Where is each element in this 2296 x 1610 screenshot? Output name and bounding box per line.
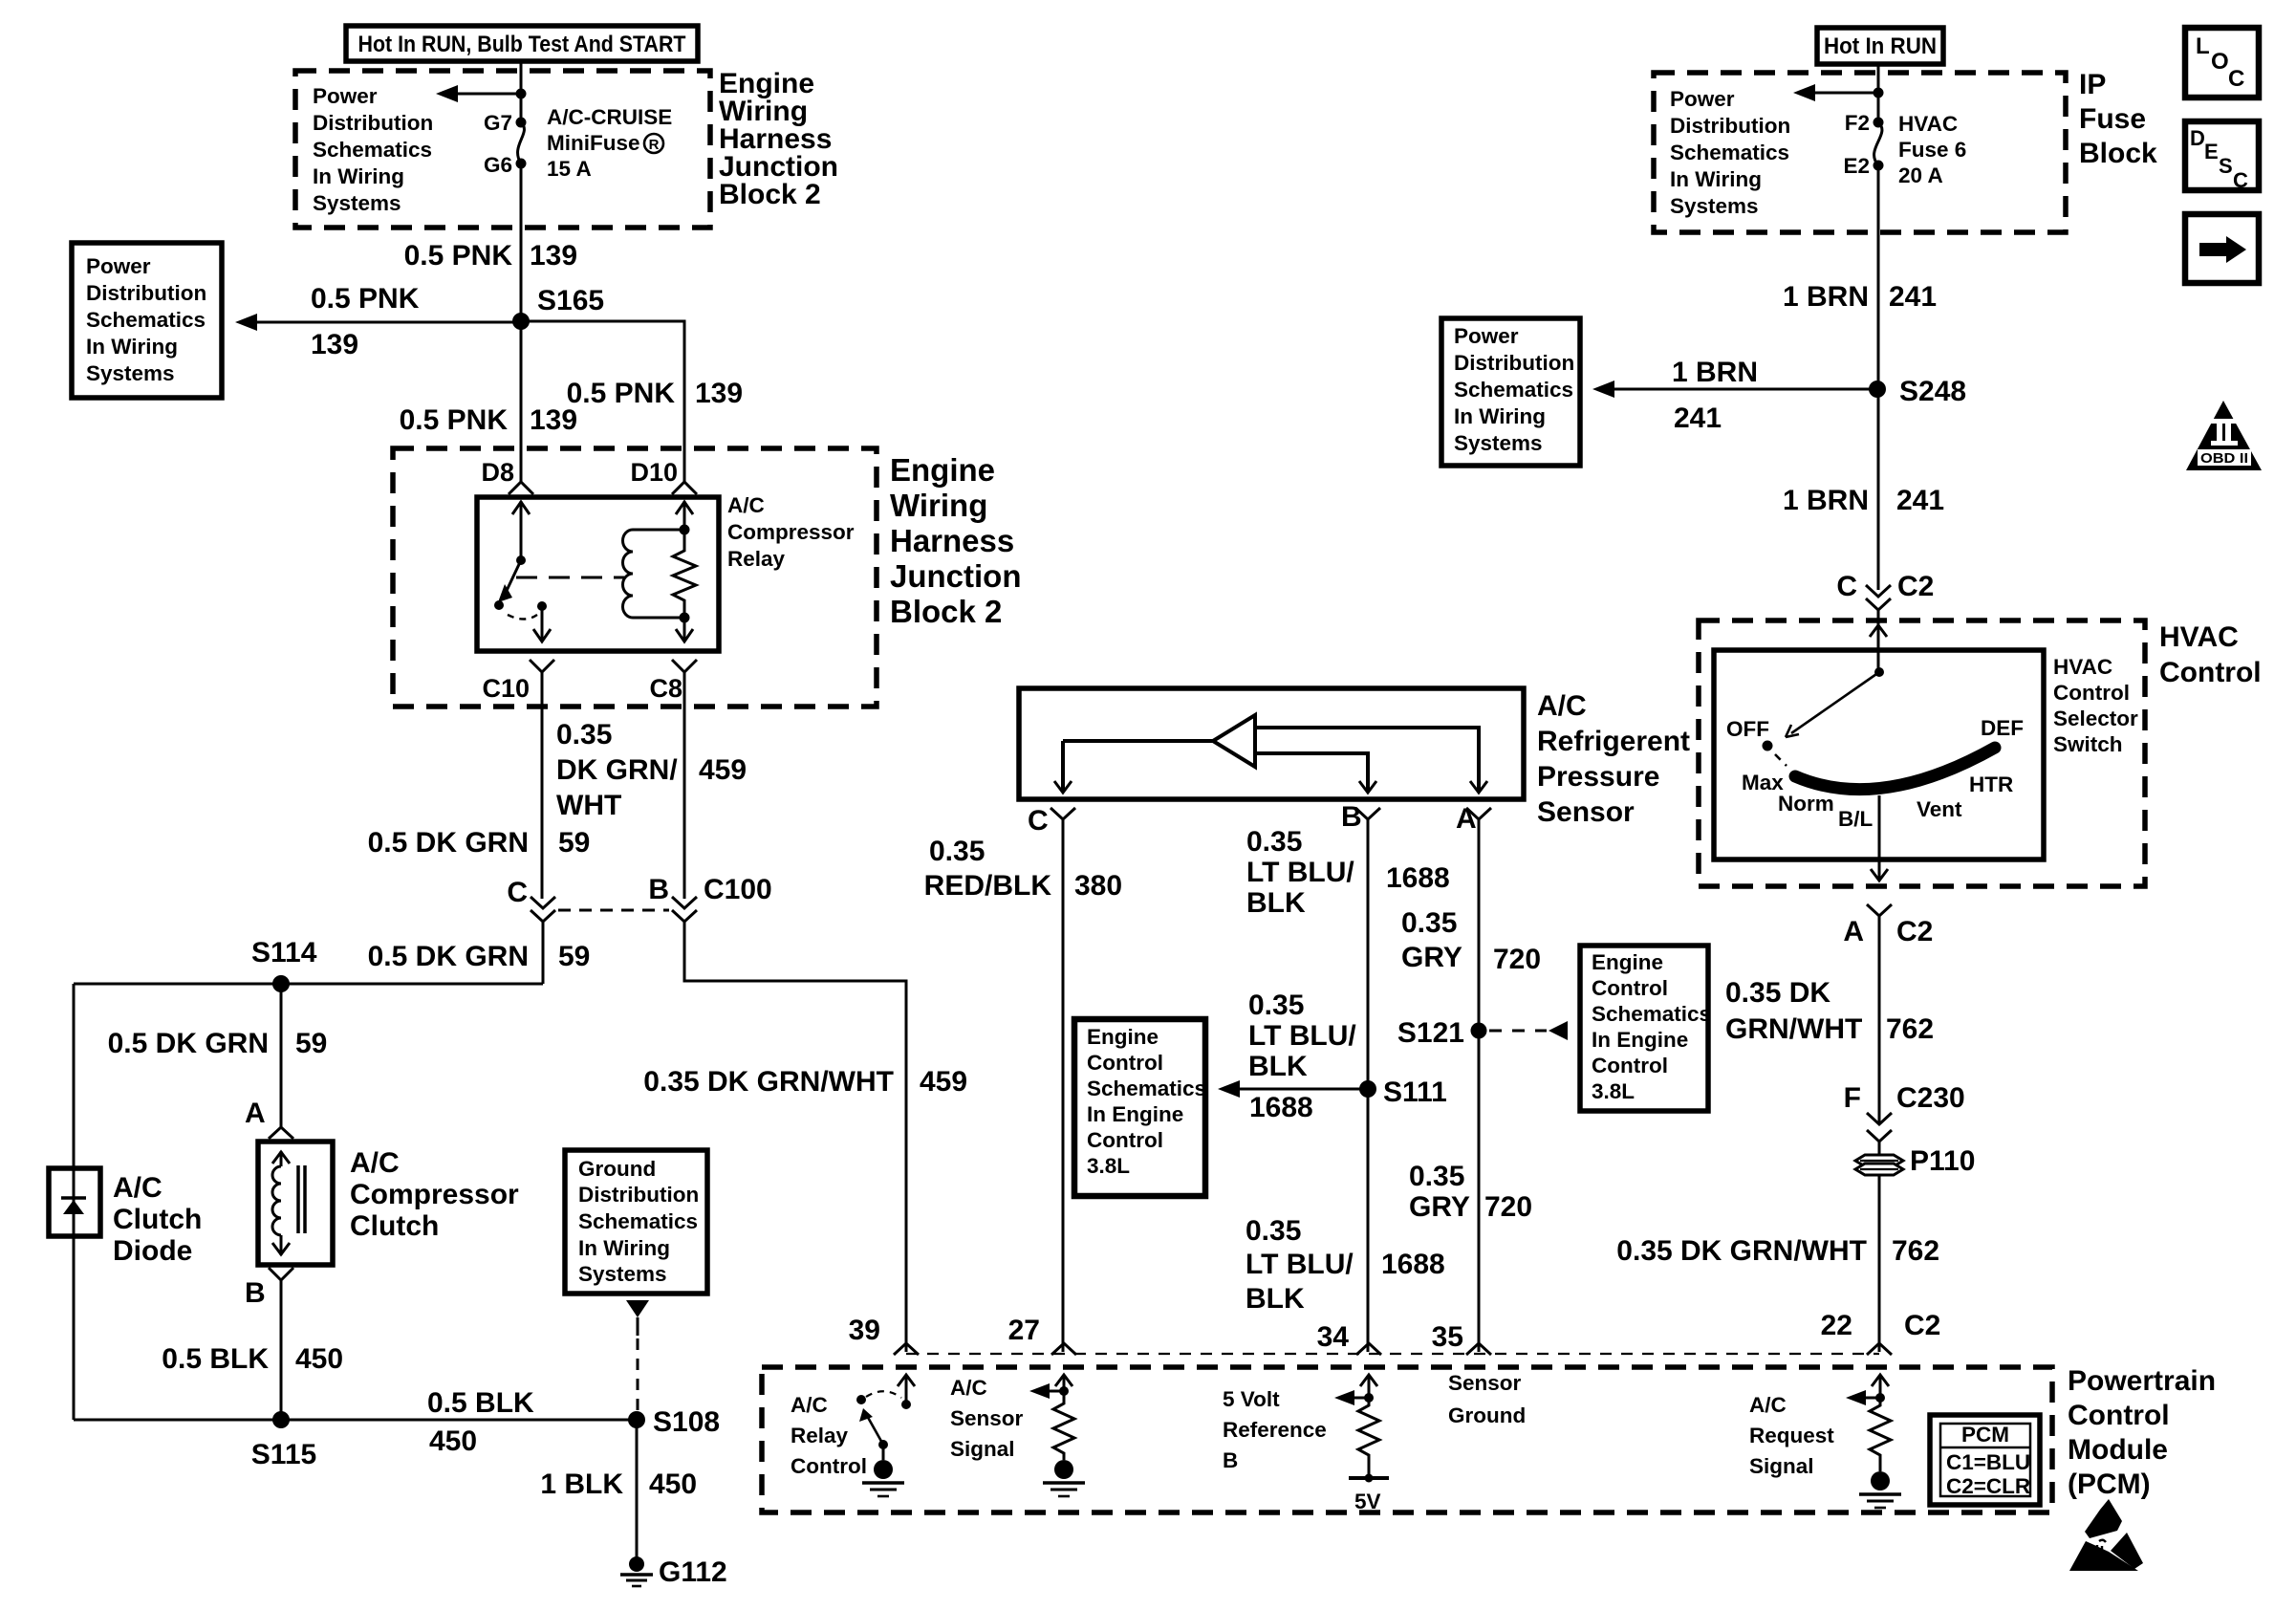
A/C Clutch Diode box [49, 1168, 100, 1236]
pin 34 [1317, 1321, 1381, 1355]
splice S114 and label 0.5 DK GRN 59 [251, 937, 590, 972]
svg-text:E: E [2204, 140, 2219, 163]
svg-text:Pressure: Pressure [1537, 761, 1659, 793]
svg-text:S248: S248 [1899, 376, 1966, 407]
svg-text:139: 139 [311, 329, 358, 360]
svg-text:Fuse: Fuse [2079, 103, 2146, 135]
wire 139 branch right to D10 [521, 321, 684, 482]
svg-text:G6: G6 [484, 153, 512, 177]
svg-text:0.5 PNK: 0.5 PNK [567, 378, 676, 409]
svg-text:Schematics: Schematics [313, 138, 432, 162]
svg-text:C2: C2 [1897, 571, 1934, 602]
svg-text:A/C: A/C [113, 1172, 162, 1204]
wire label 0.5 BLK 450 (bus) [427, 1387, 534, 1457]
wire label 1 BRN 241 (to HVAC) [1783, 485, 1944, 516]
reference box Power Distribution Schematics In Wiring Systems (left) [72, 243, 222, 398]
svg-text:DEF: DEF [1981, 716, 2024, 740]
pin 35 [1432, 1321, 1491, 1355]
svg-text:WHT: WHT [556, 790, 621, 821]
selector position OFF [1726, 717, 1773, 751]
svg-text:RED/BLK: RED/BLK [924, 870, 1052, 902]
svg-text:PCM: PCM [1961, 1423, 2009, 1447]
svg-text:LT BLU/: LT BLU/ [1246, 857, 1354, 888]
wire 762 to PCM pin 22 [1878, 1175, 1881, 1352]
pin B of compressor clutch [245, 1268, 293, 1309]
svg-text:380: 380 [1074, 870, 1122, 902]
svg-text:Junction: Junction [890, 558, 1022, 594]
connector C2 pin C (HVAC control input) [1836, 571, 1934, 610]
svg-text:B: B [245, 1277, 266, 1309]
grommet P110 [1855, 1145, 1975, 1177]
svg-text:D8: D8 [481, 458, 514, 487]
svg-text:Control: Control [2068, 1400, 2170, 1431]
label A/C Request Signal [1749, 1393, 1834, 1478]
svg-text:BLK: BLK [1245, 1283, 1305, 1315]
svg-text:HTR: HTR [1969, 772, 2013, 796]
svg-text:Relay: Relay [791, 1424, 849, 1447]
svg-text:Clutch: Clutch [113, 1204, 202, 1235]
relay coil (D10 to C8) [623, 501, 694, 623]
dashed box Engine Wiring Harness Junction Block 2 (relay) [393, 448, 877, 707]
svg-text:Refrigerent: Refrigerent [1537, 726, 1690, 757]
PCM pin 22 A/C Request Signal [1846, 1375, 1901, 1508]
svg-text:Compressor: Compressor [727, 520, 855, 544]
dashed box Engine Wiring Harness Junction Block 2 (fuse block) [295, 71, 710, 228]
relay label A/C Compressor Relay [727, 493, 855, 571]
svg-text:P110: P110 [1910, 1145, 1975, 1177]
svg-text:450: 450 [295, 1343, 343, 1375]
svg-text:0.5 PNK: 0.5 PNK [311, 283, 420, 315]
svg-text:1 BRN: 1 BRN [1672, 357, 1758, 388]
svg-text:Sensor: Sensor [1448, 1371, 1522, 1395]
reference text Power Distribution Schematics In Wiring Systems [313, 84, 433, 215]
svg-text:BLK: BLK [1246, 887, 1306, 919]
svg-text:In Engine: In Engine [1592, 1028, 1688, 1052]
wire label 0.35 LT BLU/BLK (S111 tap) [1248, 990, 1356, 1082]
svg-text:459: 459 [699, 754, 747, 786]
wire C8 exit [676, 618, 693, 642]
svg-text:Control: Control [1592, 1054, 1668, 1077]
svg-text:G112: G112 [659, 1556, 727, 1588]
svg-text:Norm: Norm [1778, 792, 1834, 816]
svg-text:Wiring: Wiring [890, 488, 987, 523]
sensor pin B [1341, 801, 1380, 833]
svg-text:Systems: Systems [578, 1262, 667, 1286]
svg-text:Relay: Relay [727, 547, 786, 571]
svg-text:0.5 PNK: 0.5 PNK [404, 240, 513, 272]
sensor pin C [1028, 805, 1075, 837]
svg-text:Power: Power [86, 254, 151, 278]
svg-text:Hot In RUN: Hot In RUN [1824, 33, 1937, 59]
pin C10 [482, 660, 554, 703]
svg-text:241: 241 [1889, 281, 1937, 313]
node feed junction with left arrow [436, 85, 527, 102]
svg-text:1 BLK: 1 BLK [540, 1469, 623, 1500]
relay resistor (parallel with coil) [673, 530, 696, 618]
svg-text:F: F [1844, 1082, 1861, 1114]
wire label 0.5 DK GRN 59 (clutch feed) [108, 1028, 328, 1059]
svg-text:In Wiring: In Wiring [578, 1236, 670, 1260]
wire diode branch (left) [73, 984, 76, 1420]
svg-text:HVAC: HVAC [2053, 655, 2112, 679]
svg-text:Ground: Ground [578, 1157, 656, 1181]
svg-text:Power: Power [1670, 87, 1735, 111]
pin C8 [649, 660, 697, 703]
wire 459 from C100 down and over to PCM pin 39 [684, 922, 906, 1352]
wire 380 sensor C to PCM 27 [1062, 819, 1065, 1352]
svg-text:Control: Control [1592, 976, 1668, 1000]
svg-text:C: C [2233, 168, 2248, 192]
svg-text:Sensor: Sensor [950, 1406, 1024, 1430]
svg-text:35: 35 [1432, 1321, 1463, 1353]
svg-text:241: 241 [1896, 485, 1944, 516]
svg-text:C1=BLU: C1=BLU [1946, 1450, 2030, 1474]
pin 22 [1821, 1310, 1941, 1355]
HVAC Control Selector Switch box [1714, 650, 2044, 859]
svg-text:59: 59 [295, 1028, 327, 1059]
svg-text:0.35: 0.35 [1246, 826, 1302, 858]
node feed junction with left arrow (IP) [1793, 84, 1884, 101]
svg-text:C: C [1836, 571, 1857, 602]
PCM pin 27 A/C Sensor Signal [1029, 1375, 1085, 1496]
reference box Power Distribution Schematics In Wiring Systems (middle) [1441, 318, 1580, 466]
svg-text:D10: D10 [630, 458, 678, 487]
node S121 with dashed reference arrow [1397, 1017, 1568, 1049]
svg-text:F2: F2 [1845, 111, 1870, 135]
svg-text:GRY: GRY [1401, 942, 1462, 973]
svg-text:In Wiring: In Wiring [1670, 167, 1762, 191]
svg-text:720: 720 [1484, 1191, 1532, 1223]
svg-text:39: 39 [849, 1315, 880, 1346]
wire 1688 sensor B to PCM 34 [1367, 819, 1370, 1352]
svg-text:0.5 BLK: 0.5 BLK [427, 1387, 534, 1419]
wire label 1 BRN 241 (below IP block) [1783, 281, 1937, 313]
svg-text:0.5 DK GRN: 0.5 DK GRN [368, 827, 529, 859]
svg-text:0.35 DK GRN/WHT: 0.35 DK GRN/WHT [1616, 1235, 1867, 1267]
svg-text:1688: 1688 [1381, 1249, 1445, 1280]
svg-text:B: B [1341, 801, 1362, 833]
wire into HVAC selector [1870, 610, 1887, 672]
svg-text:1688: 1688 [1249, 1092, 1313, 1123]
svg-text:Block: Block [2079, 138, 2157, 169]
svg-text:27: 27 [1008, 1315, 1040, 1346]
wire 139 feed from title box to S165 [520, 61, 523, 482]
svg-text:B: B [1223, 1448, 1238, 1472]
dashed reference drop to S108 [626, 1300, 649, 1413]
svg-text:Module: Module [2068, 1434, 2168, 1466]
sensor pin A [1456, 803, 1491, 835]
svg-text:Control: Control [1087, 1051, 1163, 1075]
connector C2 dashed pin line [906, 1353, 1879, 1355]
svg-text:Distribution: Distribution [1670, 114, 1790, 138]
node S108 [628, 1406, 720, 1438]
svg-text:Control: Control [2053, 681, 2130, 705]
svg-text:In Wiring: In Wiring [313, 164, 404, 188]
svg-text:E2: E2 [1843, 154, 1870, 178]
wire label 0.5 PNK 139 (below fuse block) [404, 240, 577, 272]
label A/C Relay Control [791, 1393, 867, 1478]
icon box LOC [2185, 28, 2259, 98]
label 5 Volt Reference B [1223, 1387, 1327, 1472]
svg-text:S115: S115 [251, 1439, 316, 1470]
svg-text:A: A [1456, 803, 1477, 835]
svg-text:762: 762 [1886, 1013, 1934, 1045]
relay box A/C Compressor Relay [477, 497, 719, 651]
reference box Ground Distribution Schematics In Wiring Systems [565, 1150, 707, 1294]
wire label 0.35 RED/BLK 380 [924, 836, 1122, 902]
wire 459 from C8 to C100 [683, 672, 686, 899]
svg-text:0.35 DK: 0.35 DK [1725, 977, 1830, 1009]
svg-text:C10: C10 [482, 674, 530, 703]
wire 450 from clutch to S115 [280, 1280, 283, 1420]
svg-text:L: L [2196, 33, 2210, 59]
svg-text:139: 139 [695, 378, 743, 409]
svg-text:BLK: BLK [1248, 1051, 1308, 1082]
svg-text:450: 450 [429, 1425, 477, 1457]
svg-text:Distribution: Distribution [86, 281, 206, 305]
svg-text:Systems: Systems [1454, 431, 1543, 455]
wire label 0.5 BLK 450 [162, 1343, 343, 1375]
connector C230 pin F [1844, 1082, 1965, 1142]
svg-text:139: 139 [530, 240, 577, 272]
svg-text:450: 450 [649, 1469, 697, 1500]
svg-text:762: 762 [1892, 1235, 1939, 1267]
title Engine Wiring Harness Junction Block 2 [719, 68, 838, 210]
svg-text:Block 2: Block 2 [890, 594, 1002, 629]
svg-text:A/C-CRUISE: A/C-CRUISE [547, 105, 672, 129]
svg-text:In Wiring: In Wiring [1454, 404, 1546, 428]
svg-text:Block 2: Block 2 [719, 179, 821, 210]
title HVAC Control [2159, 621, 2262, 688]
svg-text:Harness: Harness [890, 523, 1014, 558]
label A/C Clutch Diode [113, 1172, 202, 1267]
svg-text:0.5 BLK: 0.5 BLK [162, 1343, 269, 1375]
svg-text:S: S [2219, 154, 2233, 178]
wire label 0.35 DK GRN/WHT 762 (lower) [1616, 1235, 1939, 1267]
pin D8 [481, 458, 533, 494]
svg-text:(PCM): (PCM) [2068, 1469, 2151, 1500]
svg-text:S108: S108 [653, 1406, 720, 1438]
svg-text:1 BRN: 1 BRN [1783, 485, 1869, 516]
svg-text:0.35: 0.35 [1401, 907, 1457, 939]
svg-text:Sensor: Sensor [1537, 796, 1635, 828]
svg-text:Schematics: Schematics [1087, 1077, 1206, 1100]
label Sensor Ground (pin 35) [1448, 1371, 1526, 1427]
pin F2 [1845, 111, 1870, 135]
splice S248 [1869, 376, 1966, 407]
svg-text:C2=CLR: C2=CLR [1946, 1474, 2030, 1498]
A/C Compressor Clutch box [258, 1142, 333, 1265]
svg-text:0.35: 0.35 [1248, 990, 1304, 1021]
svg-text:O: O [2211, 49, 2229, 75]
wire label 0.35 LT BLU/BLK 1688 (upper) [1246, 826, 1450, 919]
node S114 [272, 975, 290, 992]
svg-text:HVAC: HVAC [2159, 621, 2239, 653]
svg-text:Power: Power [1454, 324, 1519, 348]
svg-text:In Engine: In Engine [1087, 1102, 1183, 1126]
wire label 0.5 PNK 139 (right branch) [567, 378, 743, 409]
svg-text:Schematics: Schematics [1592, 1002, 1711, 1026]
svg-text:GRY: GRY [1409, 1191, 1470, 1223]
svg-text:A/C: A/C [1749, 1393, 1787, 1417]
svg-text:459: 459 [920, 1066, 967, 1098]
svg-text:Distribution: Distribution [578, 1183, 699, 1207]
svg-text:Systems: Systems [313, 191, 401, 215]
A/C Refrigerent Pressure Sensor box [1019, 688, 1524, 799]
wire 241 to power distribution with arrow [1592, 381, 1877, 398]
svg-text:S111: S111 [1383, 1077, 1447, 1108]
svg-text:Signal: Signal [1749, 1454, 1814, 1478]
svg-text:Engine: Engine [1592, 950, 1663, 974]
pin 39 [849, 1315, 919, 1355]
dashed box HVAC Control [1699, 620, 2145, 886]
svg-text:Distribution: Distribution [313, 111, 433, 135]
fuse label A/C-CRUISE MiniFuse R 15 A [547, 105, 672, 181]
svg-text:D: D [2190, 126, 2205, 150]
svg-text:C2: C2 [1896, 916, 1933, 947]
title Engine Wiring Harness Junction Block 2 (relay box) [890, 452, 1022, 629]
svg-text:C2: C2 [1904, 1310, 1940, 1341]
wire 59 from C100 to S114 line [542, 922, 545, 984]
svg-text:Systems: Systems [1670, 194, 1759, 218]
wire label 0.5 PNK 139 (left branch to D8) [400, 404, 577, 436]
reference text Power Distribution Schematics In Wiring Systems (IP) [1670, 87, 1790, 218]
svg-text:A: A [1843, 916, 1864, 947]
svg-text:Request: Request [1749, 1424, 1834, 1447]
wire 762 down from HVAC [1878, 916, 1881, 1124]
svg-text:Signal: Signal [950, 1437, 1015, 1461]
svg-text:C100: C100 [704, 874, 772, 905]
svg-text:Fuse 6: Fuse 6 [1898, 138, 1966, 162]
svg-text:DK GRN/: DK GRN/ [556, 754, 678, 786]
svg-text:Power: Power [313, 84, 378, 108]
svg-text:G7: G7 [484, 111, 512, 135]
svg-text:Compressor: Compressor [350, 1179, 519, 1210]
relay switch (D8 to C10) [494, 501, 551, 642]
svg-text:720: 720 [1493, 944, 1541, 975]
dashed box Powertrain Control Module (PCM) [762, 1367, 2052, 1512]
svg-text:Engine: Engine [1087, 1025, 1159, 1049]
wire from selector B/L position down [1871, 795, 1888, 881]
wire label 0.35 DK GRN/WHT 459 [556, 719, 747, 821]
wire label 0.35 GRY 720 (upper) [1401, 907, 1541, 975]
svg-text:A/C: A/C [727, 493, 765, 517]
connector C100 (C and B halves) [507, 874, 771, 922]
label A/C Compressor Clutch [350, 1147, 519, 1242]
icon OBD II triangle [2186, 401, 2262, 470]
wire 139 to power distribution with arrow [235, 314, 521, 331]
svg-text:Reference: Reference [1223, 1418, 1327, 1442]
label A/C Sensor Signal [950, 1376, 1024, 1461]
fuse HVAC Fuse 6 20 A (F2-E2) [1874, 118, 1884, 171]
svg-text:S121: S121 [1397, 1017, 1464, 1049]
ground G112 [620, 1556, 727, 1588]
wire label 0.35 LT BLU/BLK 1688 (lower) [1245, 1215, 1445, 1315]
svg-text:Vent: Vent [1917, 797, 1962, 821]
title IP Fuse Block [2079, 69, 2157, 169]
svg-text:241: 241 [1674, 402, 1722, 434]
reference box Engine Control Schematics In Engine Control 3.8L (right) [1580, 946, 1711, 1111]
svg-text:GRN/WHT: GRN/WHT [1725, 1013, 1862, 1045]
title Powertrain Control Module (PCM) [2068, 1365, 2216, 1500]
svg-text:IP: IP [2079, 69, 2106, 100]
svg-text:0.35 DK GRN/WHT: 0.35 DK GRN/WHT [643, 1066, 894, 1098]
svg-text:Schematics: Schematics [1454, 378, 1573, 402]
node S115 [251, 1411, 316, 1470]
svg-text:Control: Control [2159, 657, 2262, 688]
svg-text:5V: 5V [1354, 1490, 1381, 1513]
svg-text:0.5 PNK: 0.5 PNK [400, 404, 509, 436]
svg-text:0.35: 0.35 [1409, 1161, 1464, 1192]
svg-text:Schematics: Schematics [86, 308, 206, 332]
svg-text:5 Volt: 5 Volt [1223, 1387, 1280, 1411]
svg-text:Selector: Selector [2053, 707, 2138, 730]
svg-text:3.8L: 3.8L [1087, 1154, 1130, 1178]
svg-text:15 A: 15 A [547, 157, 592, 181]
svg-text:22: 22 [1821, 1310, 1852, 1341]
svg-text:1 BRN: 1 BRN [1783, 281, 1869, 313]
svg-text:Engine: Engine [890, 452, 995, 488]
PCM connector legend box [1930, 1415, 2040, 1505]
svg-text:3.8L: 3.8L [1592, 1079, 1635, 1103]
svg-text:OBD II: OBD II [2200, 451, 2248, 467]
svg-text:R: R [649, 137, 660, 153]
svg-text:S165: S165 [537, 285, 604, 316]
svg-text:Schematics: Schematics [1670, 141, 1789, 164]
svg-text:0.5 DK GRN: 0.5 DK GRN [368, 941, 529, 972]
svg-text:In Wiring: In Wiring [86, 335, 178, 359]
power feed title box: Hot In RUN, Bulb Test And START [346, 26, 698, 61]
PCM pin 39 A/C Relay Control switch [856, 1375, 915, 1496]
connector C2 pin A (HVAC output) [1843, 904, 1933, 947]
pin A of compressor clutch [245, 1098, 293, 1139]
svg-text:HVAC: HVAC [1898, 112, 1958, 136]
diode symbol [61, 1198, 86, 1214]
svg-text:C: C [2228, 66, 2244, 92]
svg-text:20 A: 20 A [1898, 163, 1943, 187]
wire clutch branch [280, 984, 283, 1127]
svg-text:Distribution: Distribution [1454, 351, 1574, 375]
wire label 0.35 DK GRN/WHT 762 (upper) [1725, 977, 1934, 1045]
svg-text:59: 59 [558, 941, 590, 972]
svg-text:C230: C230 [1896, 1082, 1965, 1114]
selector position arc (Max to DEF) [1795, 748, 1995, 790]
clutch coil symbol [272, 1151, 290, 1255]
wire label 0.35 GRY 720 (lower) [1409, 1161, 1532, 1223]
wire ground bus S115-S108 [74, 1419, 637, 1422]
svg-text:LT BLU/: LT BLU/ [1245, 1249, 1354, 1280]
svg-text:B: B [648, 874, 669, 905]
svg-text:0.35: 0.35 [556, 719, 612, 751]
dashed box IP Fuse Block [1654, 73, 2066, 232]
svg-text:A/C: A/C [791, 1393, 828, 1417]
pin 27 [1008, 1315, 1076, 1355]
sensor internal symbol (variable arrow) [1054, 715, 1487, 793]
svg-text:S114: S114 [251, 937, 317, 968]
svg-text:1688: 1688 [1386, 862, 1450, 894]
clutch plates [298, 1165, 305, 1233]
wire label 1 BLK 450 [540, 1469, 697, 1500]
svg-text:Systems: Systems [86, 361, 175, 385]
svg-text:59: 59 [558, 827, 590, 859]
svg-text:Switch: Switch [2053, 732, 2123, 756]
wire label 0.5 PNK 139 (left arrow) [311, 283, 420, 360]
wire S114 horizontal run [74, 983, 543, 986]
wire label 0.5 DK GRN 59 [368, 827, 591, 859]
wire 450 to G112 [636, 1420, 639, 1557]
fuse A/C-CRUISE MiniFuse 15 A (G7-G6) [516, 118, 527, 169]
splice S165 [512, 285, 604, 330]
